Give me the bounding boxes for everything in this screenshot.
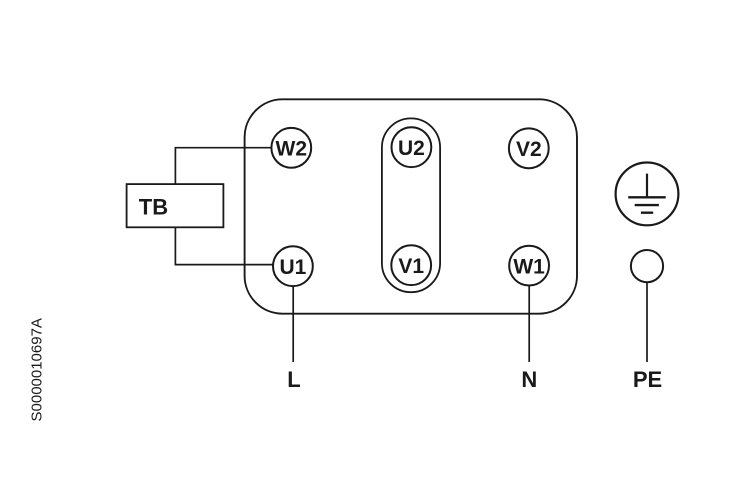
svg-text:W1: W1 xyxy=(513,256,545,279)
svg-text:V1: V1 xyxy=(398,255,424,278)
wire U1 to L xyxy=(292,286,294,362)
PE terminal circle xyxy=(631,250,663,282)
svg-text:W2: W2 xyxy=(276,138,308,161)
earth symbol xyxy=(616,163,679,226)
terminal U1 xyxy=(273,246,313,286)
svg-text:L: L xyxy=(287,367,300,392)
wire W1 to N xyxy=(528,286,530,363)
wire TB to W2 xyxy=(175,148,271,184)
svg-text:N: N xyxy=(521,367,537,392)
terminal V2 xyxy=(509,128,549,168)
wire PE xyxy=(646,282,648,362)
svg-text:PE: PE xyxy=(633,367,662,392)
svg-text:U2: U2 xyxy=(398,137,425,160)
terminal U2 xyxy=(392,127,432,167)
terminal W1 xyxy=(509,246,549,286)
terminal W2 xyxy=(271,128,311,168)
terminal block outline xyxy=(245,99,577,313)
jumper link U2-V1 xyxy=(382,118,440,292)
svg-text:V2: V2 xyxy=(516,138,542,161)
wire TB to U1 xyxy=(175,227,273,264)
terminal V1 xyxy=(391,245,431,285)
thermal switch TB xyxy=(127,184,224,227)
svg-text:S0000010697A: S0000010697A xyxy=(29,318,46,421)
svg-text:U1: U1 xyxy=(279,256,306,279)
svg-text:TB: TB xyxy=(139,195,168,220)
